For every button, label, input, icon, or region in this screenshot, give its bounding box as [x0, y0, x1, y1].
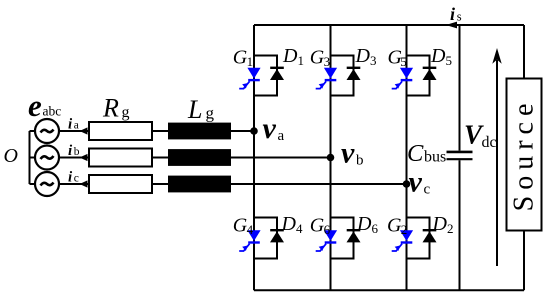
svg-text:v: v [263, 112, 277, 145]
node va [250, 127, 258, 135]
svg-text:2: 2 [401, 222, 408, 237]
svg-text:Source: Source [509, 98, 540, 212]
wire DC bus upper segment [459, 25, 461, 151]
wire neutral bus [29, 131, 31, 184]
svg-text:D: D [356, 213, 372, 235]
wire phase c source to resistor [59, 183, 89, 185]
svg-text:4: 4 [247, 222, 254, 237]
current arrow i_b [80, 154, 88, 161]
inductor L phase c [168, 176, 231, 193]
svg-text:v: v [409, 165, 423, 198]
svg-text:D: D [355, 45, 371, 67]
diode D3 [347, 68, 361, 80]
label D4 [281, 213, 304, 236]
svg-text:s: s [457, 10, 462, 24]
inductor L phase b [168, 149, 231, 166]
svg-text:6: 6 [324, 222, 331, 237]
diode D2 [423, 230, 437, 242]
svg-text:C: C [407, 140, 424, 167]
svg-text:5: 5 [446, 53, 453, 68]
svg-text:i: i [68, 143, 73, 159]
diode D5 [423, 68, 437, 80]
resistor R phase b [89, 149, 152, 167]
svg-text:3: 3 [324, 54, 331, 69]
svg-text:L: L [187, 95, 202, 124]
transistor G2 (IGBT) [392, 230, 413, 251]
switch cell S2: wire diode loop [407, 218, 430, 259]
svg-text:R: R [102, 94, 119, 123]
svg-text:i: i [68, 169, 73, 185]
label L_g [187, 95, 215, 124]
label v_b [341, 137, 364, 170]
inductor L phase a [168, 123, 231, 140]
wire resistor to inductor b [152, 157, 168, 159]
current arrow i_c [80, 180, 88, 187]
label i_b [68, 143, 80, 159]
capacitor C_bus [447, 152, 473, 159]
wire top DC rail [254, 24, 524, 26]
label i_a [68, 116, 79, 132]
wire right rail lower [523, 231, 525, 291]
svg-text:c: c [424, 181, 431, 197]
AC source phase c [30, 172, 60, 196]
svg-text:g: g [206, 103, 215, 122]
svg-text:3: 3 [370, 53, 377, 68]
svg-text:1: 1 [247, 54, 254, 69]
label D5 [430, 45, 452, 68]
current direction arrow (source branch) [492, 48, 501, 266]
node vb [327, 154, 335, 162]
switch cell S5: wire diode loop [407, 56, 430, 96]
wire bottom DC rail [254, 289, 524, 291]
resistor R phase c [89, 175, 152, 193]
label V_dc [464, 120, 497, 152]
svg-text:D: D [282, 45, 298, 67]
transistor G3 (IGBT) [316, 68, 337, 89]
svg-text:b: b [74, 146, 80, 158]
source label e_abc [28, 88, 61, 123]
label C_bus [407, 140, 446, 167]
svg-text:5: 5 [400, 54, 407, 69]
svg-text:c: c [74, 173, 79, 185]
resistor R phase a [89, 122, 152, 140]
diode D6 [347, 230, 361, 242]
diode D1 [270, 68, 284, 80]
node vc [403, 180, 411, 188]
wire phase a source to resistor [59, 130, 89, 132]
diode D4 [270, 230, 284, 242]
AC source phase b [30, 146, 60, 170]
svg-text:1: 1 [298, 53, 305, 68]
wire phase b source to resistor [59, 157, 89, 159]
wire bridge leg 2 [330, 25, 332, 290]
svg-text:abc: abc [43, 104, 62, 119]
svg-text:O: O [4, 145, 18, 167]
switch cell S1: wire diode loop [254, 56, 277, 96]
svg-text:D: D [430, 45, 446, 67]
wire resistor to inductor a [152, 130, 168, 132]
svg-text:b: b [356, 153, 364, 169]
svg-text:G: G [387, 215, 402, 237]
svg-text:G: G [233, 215, 248, 237]
wire inductor c to node vc [231, 183, 407, 185]
label D2 [432, 213, 454, 236]
label G5 [388, 47, 407, 70]
transistor G5 (IGBT) [392, 68, 413, 89]
source box [507, 79, 542, 231]
svg-text:6: 6 [372, 221, 379, 236]
label D1 [282, 45, 304, 68]
switch cell S3: wire diode loop [331, 56, 354, 96]
svg-text:D: D [281, 213, 297, 235]
label D6 [356, 213, 379, 236]
svg-text:v: v [341, 137, 355, 170]
svg-text:a: a [74, 120, 79, 132]
label G4 [233, 215, 254, 238]
svg-text:G: G [310, 215, 325, 237]
wire inductor b to node vb [231, 157, 331, 159]
wire bridge leg 1 [253, 25, 255, 290]
label G1 [233, 47, 253, 70]
wire inductor a to node va [231, 130, 254, 132]
label v_a [263, 112, 285, 145]
label i_c [68, 169, 79, 185]
current arrow i_a [80, 127, 88, 134]
switch cell S4: wire diode loop [254, 218, 277, 259]
svg-text:G: G [233, 47, 248, 69]
transistor G6 (IGBT) [316, 230, 337, 251]
current arrow i_s on top rail [446, 22, 457, 29]
wire bridge leg 3 [406, 25, 408, 290]
svg-text:a: a [278, 128, 285, 144]
svg-text:g: g [122, 104, 130, 121]
svg-text:i: i [68, 116, 73, 132]
switch cell S6: wire diode loop [331, 218, 354, 259]
label G2 [387, 215, 407, 238]
label i_s [450, 4, 462, 24]
svg-text:G: G [310, 47, 325, 69]
label R_g [102, 94, 130, 123]
transistor G1 (IGBT) [239, 68, 260, 89]
wire resistor to inductor c [152, 183, 168, 185]
wire DC bus lower segment [459, 160, 461, 290]
transistor G4 (IGBT) [239, 230, 260, 251]
svg-text:D: D [432, 213, 448, 235]
svg-text:i: i [450, 4, 455, 24]
svg-text:4: 4 [296, 221, 303, 236]
svg-text:2: 2 [447, 221, 454, 236]
svg-text:bus: bus [424, 149, 446, 166]
svg-text:dc: dc [482, 134, 497, 151]
label G3 [310, 47, 330, 70]
label G6 [310, 215, 331, 238]
AC source phase a [30, 119, 60, 143]
label v_c [409, 165, 431, 198]
label D3 [355, 45, 377, 68]
wire right rail upper [523, 25, 525, 79]
svg-text:e: e [28, 88, 42, 123]
